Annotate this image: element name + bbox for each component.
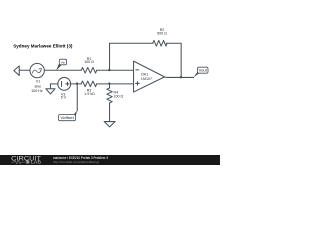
svg-text:Sydney Marlawee Elliott (3): Sydney Marlawee Elliott (3)	[13, 44, 73, 49]
svg-text:Voffset: Voffset	[60, 116, 74, 120]
svg-text:V1: V1	[36, 80, 40, 84]
svg-text:100 Ω: 100 Ω	[114, 94, 124, 98]
svg-text:Vout: Vout	[199, 69, 207, 73]
svg-text:LM107: LM107	[141, 77, 152, 81]
svg-text:1.9 kΩ: 1.9 kΩ	[84, 92, 95, 96]
svg-text:sine: sine	[35, 84, 42, 88]
svg-text:5 V: 5 V	[61, 96, 67, 100]
svg-text:100 Ω: 100 Ω	[84, 60, 94, 64]
svg-text:500 Ω: 500 Ω	[157, 32, 167, 36]
svg-text:100 Hz: 100 Hz	[31, 89, 43, 93]
svg-text:Vin: Vin	[61, 60, 66, 64]
svg-text:LAB: LAB	[31, 160, 41, 165]
svg-text:http://circuitlab.com/c8qhcu8k: http://circuitlab.com/c8qhcu8kwcyq	[53, 160, 99, 164]
